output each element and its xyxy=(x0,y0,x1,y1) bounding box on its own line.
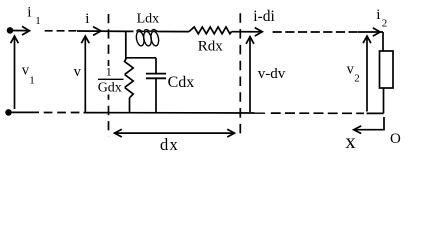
resistor 1/Gdx (shunt zigzag) xyxy=(125,58,134,98)
dashed boundary line 1 (left section cut) xyxy=(108,14,110,137)
arrowhead i-di xyxy=(255,28,262,36)
svg-text:O: O xyxy=(390,131,401,147)
mask behind 1/Gdx fraction xyxy=(97,66,125,95)
node top-left terminal dot xyxy=(7,27,14,34)
svg-text:v: v xyxy=(74,64,82,80)
svg-text:i: i xyxy=(85,11,89,27)
svg-text:Gdx: Gdx xyxy=(98,81,122,96)
voltage arrow v2 xyxy=(366,36,368,112)
wire bottom rail middle solid xyxy=(84,112,266,114)
svg-text:x: x xyxy=(345,131,355,153)
arrowhead i1 xyxy=(22,26,30,35)
svg-text:i: i xyxy=(27,5,31,21)
wire right corner down to load xyxy=(382,32,384,51)
wire bottom rail dashed right section xyxy=(271,112,364,114)
wire shunt resistor to bottom rail xyxy=(129,98,131,113)
dx dimension double arrow xyxy=(115,129,235,137)
wire bottom rail dashed left section xyxy=(44,112,80,114)
wire shunt branch from top rail xyxy=(126,31,156,57)
svg-text:2: 2 xyxy=(354,72,360,84)
resistor Rdx (series zigzag) xyxy=(189,27,232,34)
wire bottom rail right solid to corner xyxy=(367,112,384,114)
node bottom-left terminal dot xyxy=(5,109,12,116)
wire bottom rail left solid from dot xyxy=(9,111,40,113)
capacitor Cdx bottom plate xyxy=(146,77,166,79)
capacitor Cdx lead bottom xyxy=(155,79,157,113)
voltage arrow v-dv xyxy=(249,37,251,112)
wire top rail dashed left section xyxy=(45,30,77,32)
svg-text:Ldx: Ldx xyxy=(137,12,160,27)
svg-text:Rdx: Rdx xyxy=(198,38,224,54)
svg-text:1: 1 xyxy=(29,75,35,87)
arrowhead i2 xyxy=(373,28,380,36)
svg-text:dx: dx xyxy=(160,135,179,154)
wire load box to bottom rail xyxy=(383,88,385,113)
capacitor Cdx lead top xyxy=(155,58,157,73)
svg-text:i-di: i-di xyxy=(253,8,275,25)
arrowhead i xyxy=(93,27,101,36)
wire Rdx to i-di arrow xyxy=(232,31,262,33)
inductor Ldx xyxy=(135,30,159,47)
voltage arrow v xyxy=(84,36,86,112)
wire top rail solid (i arrow shaft to inductor) xyxy=(77,30,134,32)
wire top rail dashed right section xyxy=(273,31,358,33)
svg-text:Cdx: Cdx xyxy=(168,74,195,91)
wire top rail right solid to corner xyxy=(358,31,383,33)
wire top rail: i1 arrow shaft xyxy=(13,30,29,32)
dashed boundary line 2 (right section cut) xyxy=(239,13,241,135)
svg-text:2: 2 xyxy=(382,18,388,30)
voltage arrow v1 xyxy=(14,36,16,109)
svg-text:v-dv: v-dv xyxy=(258,66,286,82)
svg-text:i: i xyxy=(376,7,380,23)
x axis arrow with origin xyxy=(354,117,384,130)
load resistor box xyxy=(380,51,394,88)
wire between inductor and Rdx xyxy=(159,31,190,33)
svg-text:1: 1 xyxy=(35,15,41,27)
capacitor Cdx top plate xyxy=(146,73,166,75)
label 1/Gdx fraction xyxy=(98,64,124,95)
svg-text:1: 1 xyxy=(106,64,112,78)
